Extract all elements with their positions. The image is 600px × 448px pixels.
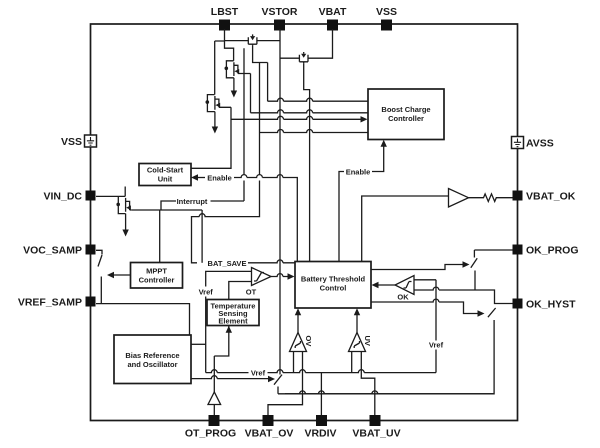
- wire bundle B2: [251, 110, 369, 113]
- svg-text:Unit: Unit: [158, 175, 173, 184]
- pin AVSS with ground symbol: [512, 137, 554, 150]
- IC outline border: [91, 24, 518, 421]
- pin VBAT: [319, 6, 347, 31]
- wire Q3 source discharge arrow: [214, 112, 216, 127]
- svg-text:and Oscillator: and Oscillator: [127, 360, 177, 369]
- block Boost Charge Controller: [368, 89, 444, 140]
- svg-text:VSTOR: VSTOR: [262, 6, 298, 18]
- pin VOC_SAMP: [23, 245, 95, 257]
- pin VBAT_UV: [352, 415, 400, 440]
- comparator U4 UV: [349, 333, 373, 352]
- svg-text:Cold-Start: Cold-Start: [147, 166, 184, 175]
- wire LBST to PMOS Q3 drain: [214, 41, 216, 95]
- wire Vref distribution line: [206, 370, 436, 373]
- wire Q2 right lead to VSTOR rail: [257, 40, 280, 42]
- wire UV output arrow into BTC bottom: [356, 315, 358, 333]
- svg-text:Boost Charge: Boost Charge: [381, 105, 430, 114]
- wire Vref riser to OK comparator: [435, 280, 437, 373]
- pin LBST: [211, 6, 239, 31]
- svg-text:Vref: Vref: [429, 341, 444, 350]
- wire node to BAT_SAVE label riser: [201, 210, 203, 263]
- svg-text:VBAT: VBAT: [319, 6, 347, 18]
- switch S4 VBAT_OV blade: [274, 375, 282, 385]
- wire OT upper input from Vref: [206, 271, 252, 372]
- svg-text:LBST: LBST: [211, 6, 239, 18]
- wire Q5 source discharge arrow: [125, 214, 127, 230]
- svg-text:Enable: Enable: [346, 168, 371, 177]
- pin VIN_DC: [43, 191, 95, 203]
- wire VOC_SAMP stub and switch: [96, 250, 102, 254]
- svg-text:UV: UV: [363, 336, 372, 346]
- wire interrupt net right segment: [211, 200, 245, 202]
- wire BAT_SAVE into battery threshold control: [248, 260, 295, 263]
- wire bias second output with arrow to switch S4: [191, 376, 268, 379]
- svg-text:VBAT_UV: VBAT_UV: [352, 428, 400, 440]
- pin VSS top: [376, 6, 397, 31]
- wire switch S4 lower contact to ladder line: [277, 387, 279, 394]
- wire ladder bottom line with hops: [278, 391, 494, 394]
- wire UV right input from VBAT_UV pin: [361, 352, 375, 416]
- svg-text:OV: OV: [304, 336, 313, 347]
- svg-text:Vref: Vref: [199, 288, 214, 297]
- svg-text:OT: OT: [246, 288, 257, 297]
- wire OK_PROG feed from BTC: [371, 265, 463, 270]
- wire OT output arrow into BTC with hop: [271, 274, 288, 277]
- wire temperature sensor feed from OT_PROG: [214, 326, 229, 357]
- transistor Q4 (PMOS VSTOR-VBAT): [280, 52, 308, 63]
- wire OV right input from VBAT_OV pin: [268, 352, 303, 416]
- arrow from MPPT controller to switch S1: [114, 274, 131, 276]
- wire VSTOR rail down: [279, 29, 281, 375]
- op-amp U1 output buffer: [449, 189, 469, 208]
- wire Q1 source discharge arrow: [233, 78, 235, 91]
- wire VBAT drop to Q4: [308, 29, 333, 58]
- svg-text:Element: Element: [218, 317, 248, 326]
- pin VBAT_OK: [513, 191, 576, 203]
- wire OT_PROG riser: [213, 356, 215, 392]
- wire interrupt left segment to VIN_DC transistor node: [131, 201, 202, 210]
- svg-text:Bias Reference: Bias Reference: [125, 351, 179, 360]
- svg-text:OK_HYST: OK_HYST: [526, 299, 576, 311]
- wire OK upper input from Vref riser: [414, 279, 436, 281]
- pin VRDIV: [304, 415, 336, 440]
- wire node line down from LBST to interrupt junction: [243, 48, 245, 201]
- svg-text:VREF_SAMP: VREF_SAMP: [18, 297, 82, 309]
- svg-text:Battery Threshold: Battery Threshold: [301, 275, 366, 284]
- wire switch S3 lower contact riser: [285, 320, 494, 394]
- svg-text:MPPT: MPPT: [146, 267, 167, 276]
- wire OK_PROG pin: [474, 249, 512, 251]
- wire bundle B3 with arrow into boost block: [231, 116, 361, 119]
- svg-text:AVSS: AVSS: [526, 138, 554, 150]
- wire VREF_SAMP to bias reference: [96, 304, 190, 335]
- pin OK_PROG: [513, 245, 579, 257]
- block Bias Reference and Oscillator: [114, 335, 191, 384]
- diode symbol D1 above OT_PROG: [208, 392, 221, 415]
- svg-text:Interrupt: Interrupt: [177, 197, 208, 206]
- wire switch S2 lower contact down: [474, 271, 476, 291]
- svg-text:Controller: Controller: [388, 114, 424, 123]
- svg-text:VRDIV: VRDIV: [304, 428, 336, 440]
- svg-text:VSS: VSS: [61, 136, 82, 148]
- wire UV left input to Vref: [351, 352, 353, 373]
- wire OK_HYST feed from BTC: [371, 299, 478, 313]
- svg-text:OK: OK: [397, 293, 409, 302]
- transistor Q1 (NMOS pass): [225, 61, 251, 78]
- transistor Q5 (PMOS VIN_DC): [96, 187, 131, 214]
- transistor Q3 (PMOS cold start): [206, 95, 232, 112]
- wire Q2 gate jog: [253, 46, 268, 63]
- wire bundle B1 gate line: [268, 63, 368, 102]
- wire MPPT controller top riser: [159, 210, 161, 263]
- wire Q3 to cold-start unit riser: [191, 107, 231, 168]
- wire Q4 gate to battery threshold control: [304, 63, 310, 261]
- switch S3 OK_HYST blade: [488, 308, 496, 317]
- svg-text:OT_PROG: OT_PROG: [185, 428, 236, 440]
- svg-text:VBAT_OK: VBAT_OK: [526, 191, 576, 203]
- pin VREF_SAMP: [18, 297, 96, 309]
- svg-text:VOC_SAMP: VOC_SAMP: [23, 245, 82, 257]
- svg-text:VSS: VSS: [376, 6, 397, 18]
- wire OV output arrow into BTC bottom: [297, 315, 299, 333]
- switch S1 blade (MPPT sample): [98, 255, 102, 267]
- pin VSS left with ground symbol: [61, 135, 97, 148]
- pin OT_PROG: [185, 415, 236, 440]
- svg-text:Enable: Enable: [207, 174, 232, 183]
- svg-text:BAT_SAVE: BAT_SAVE: [208, 259, 247, 268]
- pin OK_HYST: [513, 299, 577, 311]
- svg-text:Controller: Controller: [139, 276, 175, 285]
- wire bundle B4: [260, 130, 369, 133]
- svg-text:Control: Control: [320, 284, 347, 293]
- wire OK comparator output arrow into BTC: [378, 284, 395, 286]
- transistor Q2 (PMOS top, LBST-VSTOR): [248, 34, 257, 45]
- svg-text:VIN_DC: VIN_DC: [43, 191, 82, 203]
- wire LBST node: [215, 29, 249, 61]
- wire bias reference Vref tap: [191, 343, 206, 345]
- wire VBAT_OK sense from BTC top: [362, 196, 449, 262]
- wire OV left input to Vref: [293, 352, 295, 373]
- comparator U5 OT: [246, 268, 271, 297]
- wire enable net to battery threshold control: [234, 175, 297, 262]
- wire OK lower input to OK_HYST pin: [414, 287, 513, 303]
- block Temperature Sensing Element: [207, 300, 259, 326]
- wire enable boost from BTC to boost controller: [339, 146, 384, 262]
- resistor R1: [469, 194, 513, 202]
- wire OT lower input from temperature sensor: [229, 282, 252, 300]
- wire BAT_SAVE net vertical from B4: [192, 63, 260, 263]
- block MPPT Controller: [131, 263, 183, 289]
- comparator U2 OK: [395, 276, 414, 302]
- pin VSTOR: [262, 6, 298, 31]
- wire VRDIV riser: [320, 373, 322, 415]
- comparator U3 OV: [290, 333, 314, 352]
- block Cold-Start Unit: [139, 164, 191, 186]
- block Battery Threshold Control: [295, 262, 371, 309]
- switch S2 OK_PROG blade: [471, 258, 477, 268]
- svg-text:Vref: Vref: [251, 369, 266, 378]
- pin VBAT_OV: [245, 415, 294, 440]
- svg-text:OK_PROG: OK_PROG: [526, 245, 579, 257]
- wire Q1 source to bundle B2: [250, 74, 252, 113]
- svg-text:VBAT_OV: VBAT_OV: [245, 428, 294, 440]
- label Enable (cold start) with arrow: [191, 174, 198, 180]
